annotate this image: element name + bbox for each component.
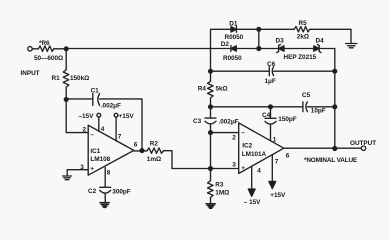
- svg-text:50—600Ω: 50—600Ω: [34, 55, 63, 62]
- svg-text:4: 4: [101, 126, 105, 133]
- capacitor C1: [93, 94, 100, 106]
- wire IC1 output: [134, 150, 147, 152]
- svg-text:HEP Z0215: HEP Z0215: [284, 54, 317, 61]
- svg-text:LM108: LM108: [90, 156, 110, 163]
- ground top right: [346, 44, 357, 48]
- node C1 tee: [64, 98, 68, 102]
- svg-text:R2: R2: [150, 141, 159, 148]
- wire input to R6: [32, 48, 38, 50]
- wire IC1 pin 8 stub: [104, 167, 106, 187]
- capacitor C4: [265, 118, 276, 127]
- input terminal: [28, 47, 32, 51]
- capacitor C2: [100, 187, 111, 202]
- svg-text:C4: C4: [262, 112, 271, 119]
- svg-text:3: 3: [80, 164, 84, 171]
- svg-text:150pF: 150pF: [278, 116, 296, 123]
- node C5 tee right: [333, 105, 337, 109]
- wire D1 to R5: [236, 28, 294, 30]
- wire down to IC1 pin2: [66, 99, 88, 132]
- svg-text:*R6: *R6: [39, 40, 50, 47]
- svg-text:IC2: IC2: [242, 143, 252, 150]
- svg-text:6: 6: [134, 142, 138, 149]
- resistor R4: [208, 81, 214, 107]
- svg-text:–: –: [241, 130, 245, 137]
- node C4 tee: [269, 105, 273, 109]
- capacitor C5: [303, 102, 308, 112]
- node C5 tee left: [209, 105, 213, 109]
- svg-text:R1: R1: [52, 75, 61, 82]
- wire pin2 stub: [211, 132, 239, 134]
- op-amp IC2 LM101A triangle: [239, 123, 284, 174]
- supply terminal -15V (IC1 pin 4): [97, 113, 101, 117]
- svg-text:1: 1: [273, 137, 277, 144]
- svg-text:R0050: R0050: [223, 55, 242, 62]
- node C6 tee right: [333, 69, 337, 73]
- output terminal: [361, 146, 365, 150]
- node C6 tee left: [209, 69, 213, 73]
- node feedback junction: [140, 149, 144, 153]
- svg-text:3: 3: [232, 162, 236, 169]
- resistor R1: [63, 49, 69, 100]
- wire corner down right side: [334, 49, 336, 149]
- svg-text:.002μF: .002μF: [101, 103, 121, 110]
- svg-text:6: 6: [286, 153, 290, 160]
- svg-text:– 15V: – 15V: [244, 199, 261, 206]
- resistor R5: [294, 27, 310, 32]
- svg-text:LM101A: LM101A: [242, 151, 267, 158]
- svg-text:+: +: [241, 165, 245, 172]
- svg-text:OUTPUT: OUTPUT: [350, 140, 376, 147]
- svg-text:7: 7: [275, 159, 279, 166]
- supply terminal +15V (IC1 pin 7): [114, 113, 118, 117]
- svg-text:.002μF: .002μF: [219, 119, 239, 126]
- diode D4 zener: [314, 46, 319, 51]
- wire main top horizontal: [66, 48, 335, 50]
- svg-text:C1: C1: [91, 87, 100, 94]
- svg-text:2: 2: [232, 135, 236, 142]
- svg-text:–: –: [90, 132, 94, 139]
- svg-text:C3: C3: [193, 118, 202, 125]
- supply arrow +15V (IC2 pin 7): [269, 181, 276, 188]
- wire IC2 output: [284, 147, 362, 149]
- svg-text:1MΩ: 1MΩ: [215, 190, 229, 197]
- supply arrow -15V (IC2 pin 4): [248, 189, 255, 196]
- svg-text:300pF: 300pF: [112, 189, 130, 196]
- svg-text:–15V: –15V: [79, 113, 95, 120]
- svg-text:8: 8: [107, 170, 111, 177]
- svg-text:4: 4: [257, 168, 261, 175]
- svg-text:+15V: +15V: [119, 113, 135, 120]
- svg-text:2kΩ: 2kΩ: [297, 34, 309, 41]
- resistor R6: [38, 46, 54, 52]
- IC1 pin 7 stub to +15V: [115, 117, 117, 141]
- svg-text:C6: C6: [267, 61, 276, 68]
- svg-text:1μF: 1μF: [265, 78, 276, 85]
- resistor R2: [147, 148, 164, 153]
- IC1 pin 4 stub to -15V: [98, 117, 100, 131]
- svg-text:D2: D2: [221, 41, 230, 48]
- diode D1: [231, 27, 236, 32]
- svg-text:5kΩ: 5kΩ: [216, 86, 228, 93]
- ground under C2: [100, 203, 109, 208]
- svg-text:+15V: +15V: [270, 192, 286, 199]
- ground IC1 pin3: [63, 176, 72, 180]
- wire R5 to ground: [310, 29, 351, 43]
- node D1 row junction: [257, 27, 261, 31]
- wire junction down to main wire: [258, 29, 260, 48]
- svg-text:2: 2: [83, 127, 87, 134]
- svg-text:R3: R3: [215, 182, 224, 189]
- wire IC1 pin 3: [67, 170, 88, 176]
- wire C3 vertical: [210, 107, 212, 118]
- ground under R3: [206, 204, 215, 209]
- wire R6 to junction: [54, 48, 66, 50]
- svg-text:R5: R5: [299, 20, 308, 27]
- svg-text:7: 7: [118, 134, 122, 141]
- svg-text:150kΩ: 150kΩ: [70, 75, 89, 82]
- wire C4 stub from C5 row: [270, 107, 272, 119]
- svg-text:*NOMINAL VALUE: *NOMINAL VALUE: [304, 157, 358, 164]
- svg-text:D4: D4: [316, 38, 325, 45]
- wire C5 row: [211, 106, 335, 108]
- svg-text:R0050: R0050: [225, 34, 244, 41]
- node main wire junction: [257, 47, 261, 51]
- wire R2 to IC2 pin3: [164, 151, 239, 169]
- wire IC2 pin 4 stub: [251, 166, 253, 189]
- svg-text:10pF: 10pF: [311, 108, 326, 115]
- svg-text:IC1: IC1: [90, 148, 100, 155]
- node output junction: [333, 147, 337, 151]
- wire IC2 pin 7 stub: [271, 155, 273, 182]
- op-amp IC1 LM108 triangle: [88, 125, 134, 175]
- node R3 tee: [209, 167, 213, 171]
- resistor R3: [208, 169, 214, 204]
- wire left vertical C6/R4/C3: [210, 49, 212, 82]
- wire pin2 node down to pin3 row: [210, 133, 212, 169]
- svg-text:R4: R4: [198, 86, 207, 93]
- wire D1 branch vertical: [211, 29, 232, 48]
- svg-text:C5: C5: [302, 92, 311, 99]
- wire C1 row left: [66, 98, 93, 100]
- wire IC2 pin 1 stub: [270, 127, 272, 141]
- svg-text:+: +: [90, 166, 94, 173]
- svg-text:D1: D1: [229, 21, 238, 28]
- wire C1 row right + down to output row: [100, 99, 142, 151]
- svg-text:1mΩ: 1mΩ: [147, 156, 161, 163]
- capacitor C3: [205, 118, 216, 133]
- svg-text:C2: C2: [88, 188, 97, 195]
- diode D2: [231, 46, 236, 51]
- svg-text:INPUT: INPUT: [21, 70, 40, 77]
- diode D3 zener: [279, 46, 284, 51]
- capacitor C6: [269, 67, 273, 76]
- node IC2 pin2 tee: [209, 131, 213, 135]
- svg-text:D3: D3: [276, 38, 285, 45]
- node input junction: [64, 47, 68, 51]
- wire C6 row: [211, 70, 335, 72]
